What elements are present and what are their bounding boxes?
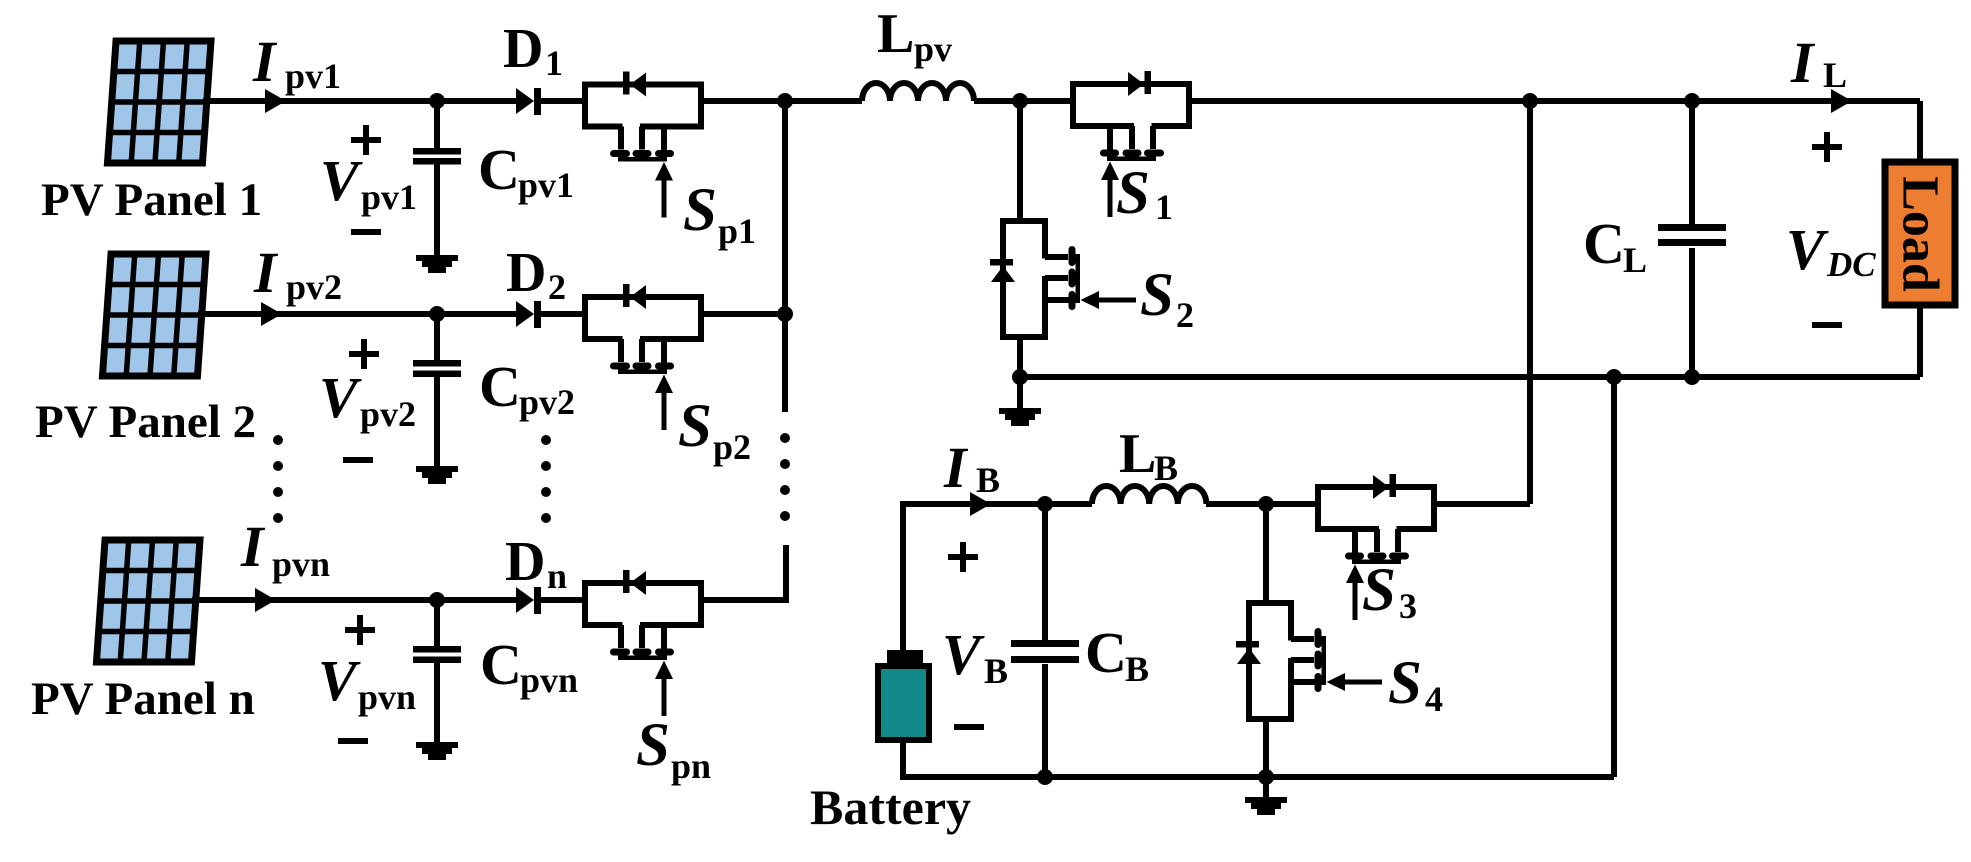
dots column bus [780,433,790,521]
svg-text:Load: Load [1892,176,1949,292]
svg-text:pv2: pv2 [519,382,575,422]
label Lpv [877,3,952,69]
svg-text:L: L [877,3,914,65]
node row2-cap [429,306,445,322]
wire S4 bottom to bus [1263,719,1269,777]
PV panel 1 [107,41,211,163]
capacitor Cpv2 [413,314,461,467]
svg-text:S: S [1116,160,1150,227]
wire D2 to Sp2 [541,311,585,317]
svg-text:I: I [943,435,969,500]
wire S3 to riser [1434,501,1530,507]
inductor Lpv [862,83,974,101]
wire battery top [903,504,1092,650]
label Cpv2 [479,354,575,422]
svg-text:D: D [506,242,546,304]
wire Dn to Spn [541,597,585,603]
svg-text:1: 1 [545,43,563,83]
node CB-top [1037,496,1053,512]
label Cpvn [480,632,578,700]
ground capn [416,742,458,760]
label Ipv1 [252,29,341,96]
current arrow IL [1831,89,1852,113]
svg-text:V: V [942,622,985,687]
capacitor Cpv1 [413,101,461,256]
svg-text:B: B [1125,649,1149,689]
svg-text:V: V [320,148,363,213]
svg-text:I: I [253,240,279,305]
diode D1 [516,88,541,115]
wire S4 branch down [1263,504,1269,603]
label S4 [1388,650,1443,719]
switch S2 [990,221,1136,337]
current arrow Ipv1 [265,89,286,113]
node riser-top [1522,93,1538,109]
svg-text:B: B [976,460,1000,500]
node CL-top [1684,93,1700,109]
svg-text:C: C [479,354,521,419]
svg-text:B: B [1154,448,1178,488]
label VDC [1786,217,1876,284]
svg-text:pv1: pv1 [518,165,574,205]
wire row1 from panel to diode D1 [203,98,518,104]
svg-text:D: D [505,531,545,593]
node S4-bottom [1258,769,1274,785]
svg-text:PV Panel n: PV Panel n [31,673,255,725]
label IB [943,435,1000,500]
svg-text:Battery: Battery [810,779,971,835]
ground cap2 [416,466,458,484]
node row1-bus [777,93,793,109]
wire Spn to bus corner [701,545,786,603]
ground S2 [999,377,1041,426]
battery bottom wire [903,740,1614,777]
svg-text:S: S [1362,557,1396,624]
wire Sp2 to bus [701,311,788,317]
label S1 [1116,160,1173,227]
label Ipvn [240,514,330,584]
wire row2 from panel to diode D2 [198,311,518,317]
label Spn [636,712,711,786]
svg-text:pv2: pv2 [360,394,416,434]
label Cpv1 [478,137,574,205]
svg-text:C: C [1085,620,1127,685]
load resistor [1885,162,1955,305]
node rown-cap [429,592,445,608]
svg-text:C: C [1583,211,1625,276]
ground S4 [1245,777,1287,815]
svg-text:V: V [1786,217,1829,282]
label Dn [505,531,567,596]
node CB-bottom [1037,769,1053,785]
svg-text:PV Panel 1: PV Panel 1 [41,174,262,226]
plus VB [948,542,978,572]
plus VDC [1812,132,1842,162]
node row2-bus [777,306,793,322]
label Vpv2 [319,365,416,434]
wire D1 to Sp1 [541,98,585,104]
wire load bottom [1917,305,1923,377]
svg-text:1: 1 [1155,187,1173,227]
vertical PV bus [782,101,788,412]
svg-text:DC: DC [1826,245,1876,284]
svg-text:n: n [547,556,567,596]
inductor LB [1092,486,1206,504]
svg-text:I: I [1790,30,1816,95]
minus VDC [1812,322,1842,328]
PV panel n [96,540,200,662]
label D2 [506,242,566,307]
minus Vpvn [338,738,368,744]
svg-text:L: L [1119,423,1156,485]
dots column middle [541,435,551,523]
svg-text:PV Panel 2: PV Panel 2 [35,396,256,448]
diode D2 [516,301,541,328]
svg-text:3: 3 [1399,586,1417,626]
wire S1 to load corner [1189,101,1920,162]
dots column left [273,435,283,523]
label Vpv1 [320,148,417,217]
wire S2 branch down [1017,101,1023,221]
switch Spn [585,570,701,716]
capacitor Cpvn [413,600,461,743]
svg-text:C: C [478,137,520,202]
label Sp2 [678,393,751,467]
svg-text:S: S [1140,262,1174,329]
svg-text:4: 4 [1425,679,1443,719]
label Vpvn [318,648,416,717]
label IL [1790,30,1847,95]
switch S4 [1236,603,1382,719]
svg-text:pvn: pvn [358,677,416,717]
svg-text:V: V [318,648,361,713]
switch Sp2 [585,284,701,430]
current arrow Ipvn [255,588,276,612]
svg-text:pv2: pv2 [286,267,342,307]
svg-text:V: V [319,365,362,430]
diode Dn [516,587,541,614]
minus Vpv2 [343,457,373,463]
wire Sp1 to bus [701,98,862,104]
svg-text:pvn: pvn [272,544,330,584]
label D1 [503,18,563,83]
minus VB [954,724,984,730]
label Ipv2 [253,240,342,307]
svg-text:S: S [678,393,712,460]
riser S3 to top bus [1527,101,1533,504]
label S3 [1362,557,1417,626]
label CB [1085,620,1149,689]
svg-text:S: S [683,177,717,244]
svg-text:L: L [1623,240,1647,280]
node S2-branch [1012,93,1028,109]
svg-text:pn: pn [671,746,711,786]
ground cap1 [416,255,458,273]
svg-text:2: 2 [1176,295,1194,335]
minus Vpv1 [351,229,381,235]
svg-text:D: D [503,18,543,80]
plus Vpvn [345,615,375,645]
battery [878,650,929,740]
svg-text:I: I [240,514,266,579]
svg-text:C: C [480,632,522,697]
switch Sp1 [585,72,701,218]
wire LB to S3 [1206,501,1318,507]
svg-text:pv: pv [914,29,952,69]
svg-text:p2: p2 [713,427,751,467]
switch S3 [1318,474,1434,620]
svg-text:B: B [984,651,1008,691]
current arrow IB [970,492,991,516]
plus Vpv2 [349,339,379,369]
svg-text:pvn: pvn [520,660,578,700]
svg-text:S: S [636,712,670,779]
label LB [1119,423,1178,488]
svg-text:L: L [1823,55,1847,95]
label CL [1583,211,1647,280]
svg-text:I: I [252,29,278,94]
wire S2 bottom to bus [1017,337,1023,377]
node bus-battery riser [1606,369,1622,385]
plus Vpv1 [351,125,381,155]
svg-text:2: 2 [548,267,566,307]
capacitor CL [1658,101,1726,377]
PV panel 2 [102,254,206,376]
svg-text:p1: p1 [718,211,756,251]
node S4-branch [1258,496,1274,512]
wire Lpv to S1 [974,98,1073,104]
svg-text:S: S [1388,650,1422,717]
label Sp1 [683,177,756,251]
node CL-bottom [1684,369,1700,385]
wire rown from panel to diode Dn [192,597,518,603]
svg-text:pv1: pv1 [361,177,417,217]
current arrow Ipv2 [261,302,282,326]
riser battery bus [1611,377,1617,777]
node row1-cap [429,93,445,109]
svg-text:pv1: pv1 [285,56,341,96]
label VB [942,622,1008,691]
bottom bus wire [1020,374,1920,380]
label S2 [1140,262,1194,335]
switch S1 [1073,71,1189,217]
node S2-bottom [1012,369,1028,385]
capacitor CB [1011,504,1079,777]
